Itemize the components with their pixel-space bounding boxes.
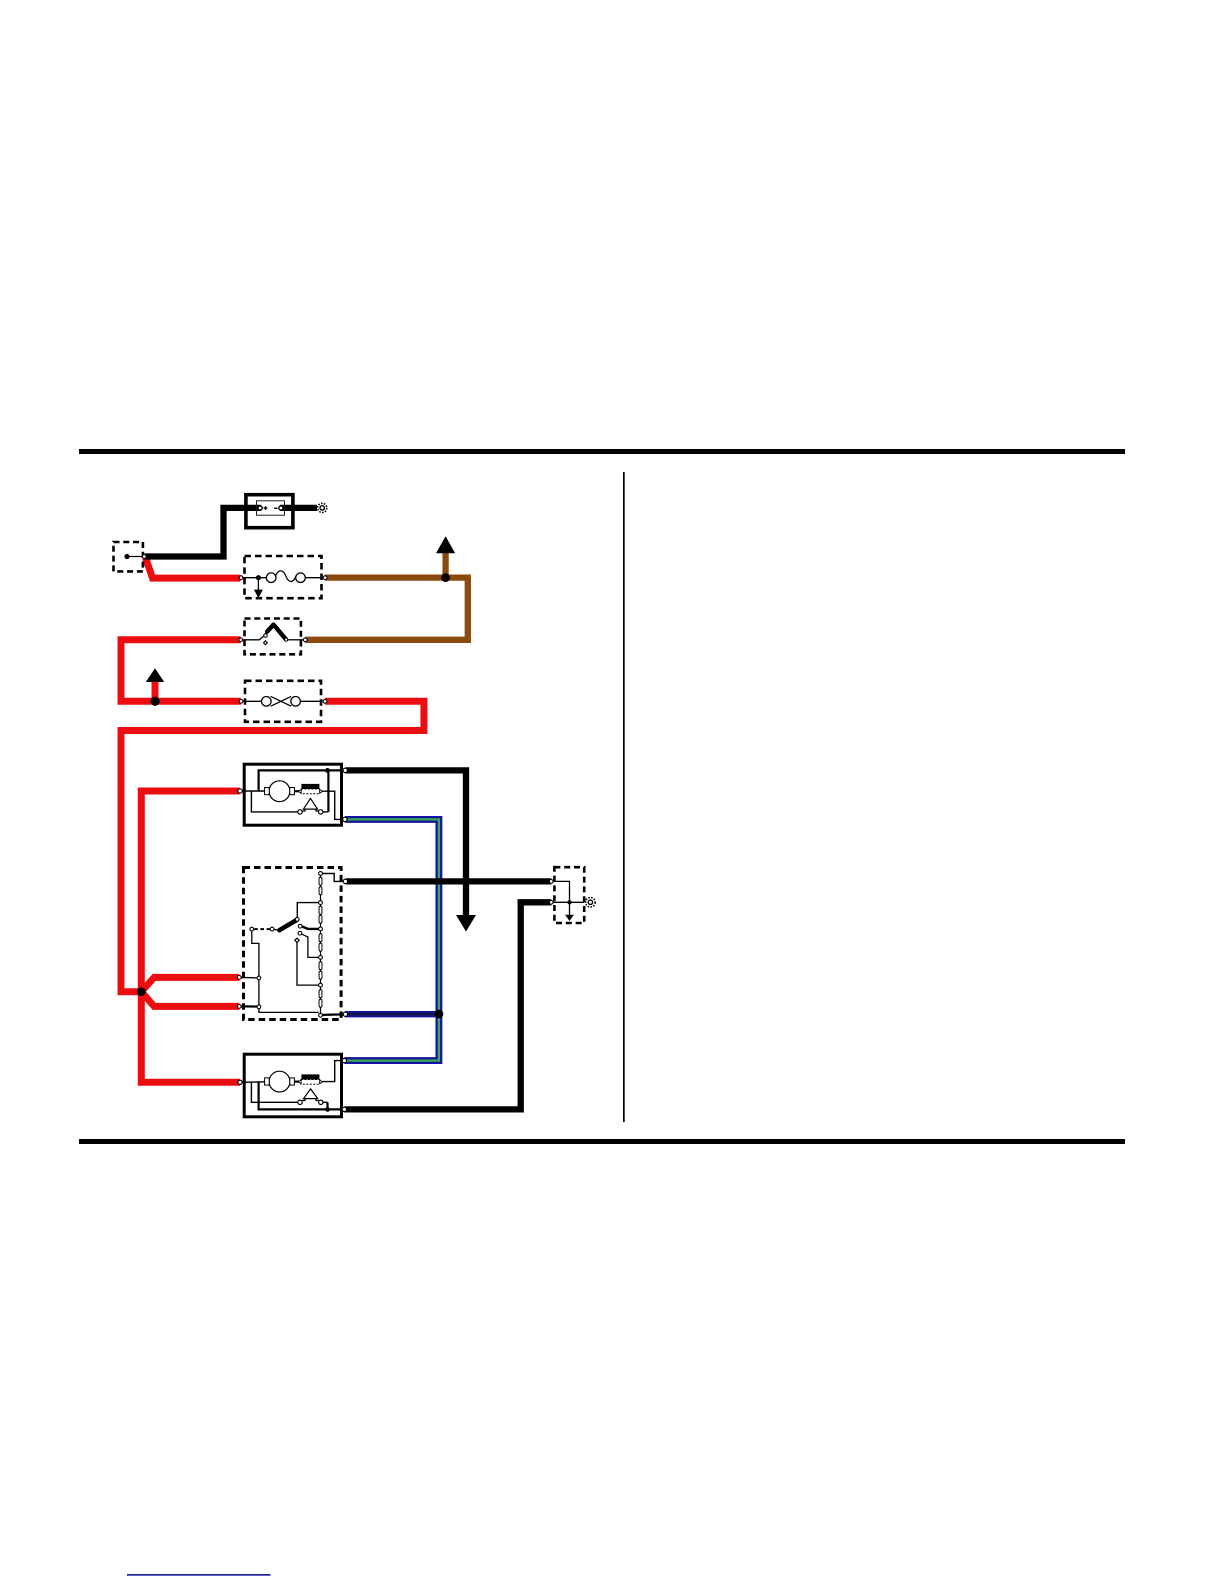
motor M1 (238, 764, 348, 825)
ring terminal battery (318, 503, 327, 512)
wire black battery left (145, 508, 262, 557)
wire red feed M1 (141, 791, 240, 992)
wire blue S2 core (345, 1013, 439, 1015)
brown stub to arrow (442, 553, 448, 578)
junction brown (441, 573, 450, 582)
fuse F1 (239, 556, 327, 598)
column divider (623, 472, 625, 1122)
wire red CB1 loop (121, 701, 424, 991)
wire brown F1 to S1 (305, 578, 468, 640)
wire blue green core (344, 819, 439, 1060)
junction red S1 line (150, 697, 159, 706)
connector C2 (549, 867, 584, 923)
battery B1 (246, 495, 293, 528)
circuit breaker CB1 (239, 681, 327, 722)
top rule (79, 449, 1125, 454)
junction red Y (137, 987, 146, 996)
ring terminal C2 (586, 898, 596, 908)
wire black battery right (280, 505, 317, 511)
connector C1 (114, 542, 147, 571)
link underline (127, 1574, 271, 1576)
junction blue wires (435, 1010, 444, 1019)
wire blue S2 out (345, 1011, 439, 1017)
switch S1 (239, 619, 307, 655)
wire black S2 to C2 (345, 878, 551, 884)
wire red branch S2 lower (141, 992, 239, 1007)
arrow up brown net (436, 536, 455, 553)
switch assembly S2 (237, 868, 347, 1020)
wire red feed M2 (141, 992, 240, 1083)
wire red S1 to CB1 (121, 640, 241, 702)
red stub to arrow (152, 682, 159, 702)
wire black M2 to C2 (344, 902, 551, 1109)
arrow up red net (146, 668, 164, 682)
wire black M1 out (345, 770, 466, 915)
bottom rule (79, 1139, 1125, 1144)
wire blue M1 to M2 (344, 819, 439, 1060)
motor M2 (238, 1054, 347, 1117)
wire red C1 to F1 (146, 558, 241, 579)
wire red branch S2 upper (141, 977, 239, 991)
arrow down black net (456, 915, 476, 932)
